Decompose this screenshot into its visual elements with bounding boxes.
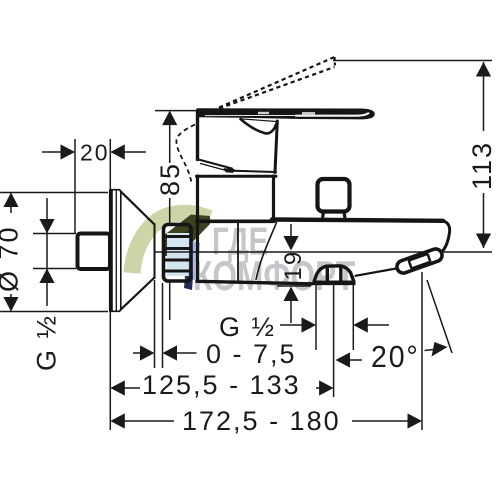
arrow 172 left xyxy=(110,413,125,428)
hose dim ext lines xyxy=(315,285,317,350)
svg-text:КОМФОРТ: КОМФОРТ xyxy=(193,252,355,299)
body upper block right edge xyxy=(275,121,277,173)
svg-text:19: 19 xyxy=(280,250,307,281)
arrow dia70 up xyxy=(3,193,18,208)
arrow G12 down xyxy=(39,219,54,234)
top reference line xyxy=(333,60,492,62)
dim 19 ext line xyxy=(277,285,311,287)
spout right end curve xyxy=(441,221,450,253)
dia70 ext bottom xyxy=(0,311,108,313)
arrow G12 hose right xyxy=(302,317,317,332)
svg-text:Ø 70: Ø 70 xyxy=(0,225,24,292)
svg-text:20: 20 xyxy=(80,140,110,166)
dim 19 line lower xyxy=(290,301,292,323)
arrow 125 left xyxy=(110,380,125,395)
arrow hose left xyxy=(353,317,368,332)
flange plate left edge thick xyxy=(109,191,113,311)
arrow dia70 down xyxy=(3,297,18,312)
wall nipple xyxy=(78,234,111,270)
body/spout underside xyxy=(197,281,312,284)
dia70 dim line xyxy=(10,193,12,213)
dim 113 line xyxy=(483,62,485,131)
dashed raised lever xyxy=(212,57,335,111)
union nut xyxy=(164,225,192,282)
dashed pivot outline xyxy=(176,125,195,184)
dim 20 tails xyxy=(42,151,61,153)
arrow 125 right xyxy=(319,380,334,395)
dia70 ext top xyxy=(0,192,108,194)
svg-text:G ½: G ½ xyxy=(32,314,62,371)
hose outlet dome xyxy=(313,266,356,283)
svg-text:85: 85 xyxy=(155,162,185,196)
arrow 113 up xyxy=(476,62,491,77)
arrow 113 down xyxy=(476,234,491,249)
arrow 20deg left xyxy=(336,352,351,367)
arrow 20 left xyxy=(61,144,76,159)
arrow 0-7.5 right xyxy=(140,345,155,360)
body upper block left edge xyxy=(196,111,199,160)
dim 20 ext line left xyxy=(74,139,76,233)
spout xyxy=(272,220,450,276)
20deg tail xyxy=(348,359,362,361)
body interior concave curve xyxy=(256,223,277,280)
aerator xyxy=(395,247,444,275)
arrows xyxy=(3,62,491,429)
lever notch xyxy=(241,119,277,134)
flange cone bottom xyxy=(121,278,155,310)
arrow 0-7.5 left xyxy=(163,345,178,360)
arrow 20 right xyxy=(110,144,125,159)
arrow G12 up xyxy=(39,269,54,284)
flange plate xyxy=(112,190,121,312)
body interior vertical xyxy=(237,223,239,281)
body left edge xyxy=(196,176,199,281)
dim 0-7.5 tails xyxy=(133,352,141,354)
svg-text:125,5 - 133: 125,5 - 133 xyxy=(142,370,301,400)
svg-text:G ½: G ½ xyxy=(219,312,276,342)
G12 ext top xyxy=(33,233,76,235)
G12 dim line xyxy=(46,198,48,306)
flange cone tip face xyxy=(154,224,156,278)
svg-text:172,5 - 180: 172,5 - 180 xyxy=(182,406,341,436)
arrow 20deg slant xyxy=(432,342,448,357)
svg-text:20°: 20° xyxy=(371,340,420,374)
body upper block slant thin xyxy=(201,164,229,172)
wall line lower xyxy=(109,312,111,430)
body top edge (seam lower) xyxy=(197,175,277,178)
body upper block slant thick xyxy=(199,160,233,169)
20deg slanted line xyxy=(427,280,452,353)
union thread bars xyxy=(165,235,190,238)
svg-text:113: 113 xyxy=(467,141,496,190)
spout underside right of dome xyxy=(356,269,397,276)
dim 85 line segments xyxy=(169,124,171,163)
G12 ext bottom xyxy=(33,268,76,270)
dim 125 tails xyxy=(112,387,140,389)
dim 172 tails xyxy=(112,420,174,422)
dim 0-7.5 ext lines xyxy=(154,280,156,368)
arrow 85 up xyxy=(162,111,177,126)
diverter knob xyxy=(318,179,350,218)
hose dim tail right xyxy=(367,324,389,326)
body mid line xyxy=(197,220,274,224)
arrow 172 right xyxy=(408,413,423,428)
body right edge lower xyxy=(272,176,275,221)
dim 20 ext line right / wall line xyxy=(109,139,111,189)
flange cone top xyxy=(121,192,155,225)
dim 85 ext line xyxy=(155,110,196,112)
flange plate inner line xyxy=(115,191,117,311)
dimension texts xyxy=(0,140,496,437)
lever bar xyxy=(197,108,375,119)
body slant to right edge xyxy=(233,171,276,172)
spout top edge xyxy=(272,220,443,221)
svg-text:0 - 7,5: 0 - 7,5 xyxy=(206,339,297,369)
dim 19 line upper xyxy=(290,224,292,236)
watermark logo leaf green xyxy=(132,213,210,290)
supply centerline xyxy=(155,251,492,253)
arrow 19 down xyxy=(283,236,298,251)
G12 hose label tail xyxy=(280,324,304,326)
dim 172 ext line xyxy=(421,272,423,430)
arrow 19 up xyxy=(283,287,298,302)
body slant wedge fill xyxy=(224,169,235,173)
